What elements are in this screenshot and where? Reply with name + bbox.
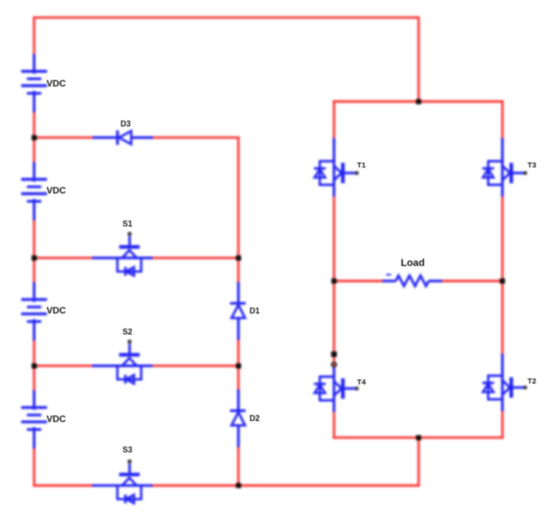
wire top rail: [34, 16, 419, 18]
svg-text:S2: S2: [123, 328, 133, 337]
mosfet T4: [314, 366, 359, 412]
wire S2 row right: [153, 365, 239, 367]
wire bottom row right: [153, 484, 419, 486]
mosfet S2: [92, 340, 153, 384]
junction node dot bottom row mid: [236, 483, 241, 488]
svg-text:VDC: VDC: [47, 306, 67, 316]
diode D1: [230, 282, 246, 340]
wire left rail segment 3: [33, 221, 35, 283]
svg-text:VDC: VDC: [47, 79, 67, 89]
wire bottom drop: [417, 438, 419, 486]
svg-text:VDC: VDC: [47, 185, 67, 195]
wire H-bridge top rail: [334, 100, 502, 102]
node marker circle above T4: [332, 362, 336, 366]
wire H-bridge left rail segment 2: [333, 197, 335, 365]
mosfet S1: [92, 232, 153, 276]
junction node dot S1 row right: [236, 255, 241, 260]
wire S1 row left: [34, 257, 92, 259]
mosfet T2: [482, 354, 527, 411]
wire left rail segment 1: [33, 18, 35, 55]
resistor Load: [382, 275, 442, 286]
wire mid rail segment 3: [237, 447, 239, 485]
wire S1 row right: [153, 257, 239, 259]
wire load row right: [442, 280, 502, 282]
junction node dot above T4: [331, 351, 337, 357]
svg-text:S1: S1: [123, 220, 133, 229]
junction node dot S1 row left: [32, 255, 37, 260]
wire top drop to H-bridge: [417, 18, 419, 102]
svg-text:T4: T4: [357, 378, 367, 387]
svg-text:Load: Load: [401, 258, 425, 269]
junction node dot D3 row left: [32, 135, 37, 140]
svg-text:D3: D3: [121, 120, 132, 129]
battery VDC3: [21, 282, 47, 340]
mosfet T1: [314, 138, 359, 197]
wire left rail segment 5: [33, 449, 35, 486]
svg-text:S3: S3: [123, 446, 133, 455]
diode D2: [230, 390, 246, 448]
wire load row left: [334, 280, 382, 282]
mosfet S3: [92, 460, 153, 504]
wire bottom row left: [34, 484, 92, 486]
junction node dot load row right: [500, 278, 505, 283]
battery VDC2: [21, 162, 47, 220]
wire H-bridge left rail segment 3: [333, 412, 335, 438]
wire D3 row right: [153, 136, 238, 138]
svg-text:T2: T2: [528, 377, 537, 386]
wire mid rail segment 2: [237, 340, 239, 390]
junction node dot S2 row right: [236, 363, 241, 368]
wire H-bridge left rail segment 1: [333, 102, 335, 139]
junction node dot load row left: [331, 278, 336, 283]
svg-text:D1: D1: [250, 307, 261, 316]
battery VDC4: [21, 390, 47, 448]
svg-text:D2: D2: [250, 414, 261, 423]
svg-text:T1: T1: [357, 161, 366, 170]
mosfet T3: [482, 138, 527, 197]
svg-text:VDC: VDC: [47, 414, 67, 424]
wire left rail segment 2: [33, 113, 35, 163]
junction node dot H-bridge top: [416, 99, 421, 104]
wire H-bridge right rail segment 1: [501, 102, 503, 139]
wire H-bridge right rail segment 3: [501, 412, 503, 438]
battery VDC1: [21, 54, 47, 112]
wire H-bridge right rail segment 2: [501, 197, 503, 354]
diode D3 (horizontal, cathode left): [93, 130, 154, 145]
wire H-bridge bottom rail: [334, 436, 502, 438]
junction node dot H-bridge bottom: [416, 435, 421, 440]
wire D3 row left: [34, 136, 92, 138]
wire S2 row left: [34, 365, 92, 367]
svg-text:T3: T3: [528, 161, 537, 170]
wire mid rail segment 1: [237, 138, 239, 283]
wire left rail segment 4: [33, 341, 35, 391]
junction node dot S2 row left: [32, 363, 37, 368]
